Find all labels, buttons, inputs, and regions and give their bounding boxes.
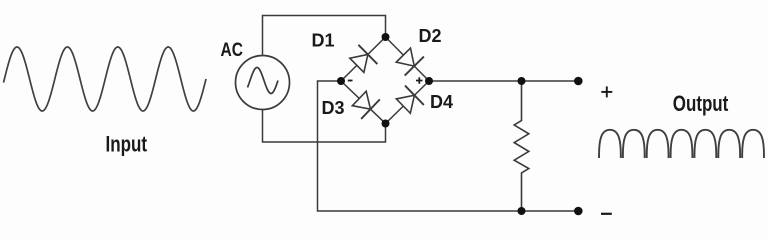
wire bridge right vertex (+) to top rail <box>429 80 578 82</box>
svg-text:Output: Output <box>673 91 729 116</box>
svg-text:D2: D2 <box>419 26 442 46</box>
junction top vertex <box>382 33 390 41</box>
bridge plus mark <box>416 77 423 84</box>
terminal minus dot <box>574 207 583 216</box>
output minus sign <box>601 213 612 215</box>
svg-text:D4: D4 <box>430 92 453 112</box>
svg-text:D3: D3 <box>322 98 345 118</box>
output plus sign <box>601 86 612 97</box>
output rectified waveform <box>599 130 764 158</box>
junction resistor bottom <box>518 207 526 215</box>
diode D3 <box>352 91 379 119</box>
AC source circle <box>236 56 290 110</box>
diode D4 <box>396 86 424 114</box>
bridge arm wires (diamond) <box>341 37 429 124</box>
junction resistor top <box>518 77 526 85</box>
resistor load R <box>514 81 529 211</box>
input AC sine waveform <box>4 47 207 111</box>
AC source sine symbol <box>248 68 279 94</box>
junction right vertex <box>425 77 433 85</box>
svg-text:D1: D1 <box>312 31 335 51</box>
junction left vertex <box>337 77 345 85</box>
svg-text:AC: AC <box>221 40 244 61</box>
svg-text:Input: Input <box>106 132 148 157</box>
terminal plus dot <box>574 77 583 86</box>
junction bottom vertex <box>382 120 390 128</box>
diode D1 <box>350 45 378 73</box>
bridge minus mark <box>348 80 353 82</box>
diode D2 <box>396 48 424 76</box>
wire bridge left vertex (-) down to bottom rail <box>318 81 579 211</box>
wire AC bottom to bridge bottom vertex <box>263 110 386 143</box>
wire AC top to bridge top vertex <box>263 16 386 56</box>
